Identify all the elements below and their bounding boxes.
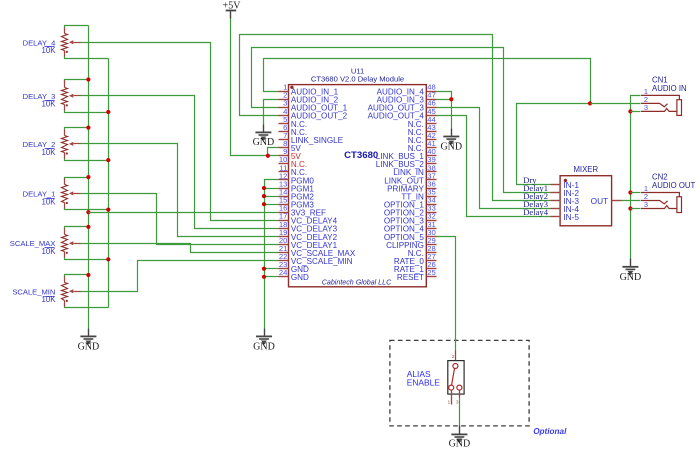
- ground symbol below IC: [264, 329, 266, 337]
- connector CN2 AUDIO OUT audio jack: [641, 173, 696, 213]
- pin 45 AUDIO_OUT_4: [427, 115, 437, 117]
- svg-text:3: 3: [644, 103, 648, 112]
- wire alias switch to ground: [459, 398, 461, 426]
- junction CN2 pin 3 ground: [628, 206, 632, 210]
- pin 3 AUDIO_OUT_1: [279, 107, 289, 109]
- wire SCALE_MIN bottom terminal to bus: [65, 305, 109, 308]
- wire DELAY_1 bottom terminal to bus: [65, 208, 109, 210]
- pin 40 LINK_BUS_1: [427, 155, 437, 157]
- junction bus X1: [86, 273, 90, 277]
- wire DELAY_4 wiper to VC_DELAY4 pin 17: [81, 43, 279, 221]
- junction bus X1: [86, 77, 90, 81]
- pin IN-1: [551, 184, 561, 186]
- jack pin 3 line with spring contact: [641, 206, 677, 209]
- svg-text:IN-5: IN-5: [563, 212, 579, 222]
- wire AUDIO_OUT_2 pin 4 to mixer IN-3 (top run): [240, 35, 551, 201]
- value overline mark DELAY_1: [45, 198, 55, 200]
- wire OPTION_5 pin 30 to alias switch: [437, 237, 456, 351]
- svg-text:24: 24: [279, 268, 288, 277]
- value overline mark DELAY_3: [45, 100, 55, 102]
- wire GND pin 23: [265, 268, 279, 270]
- junction PGM1: [262, 186, 266, 190]
- ground symbol mid (AUDIO_IN_2): [263, 125, 265, 133]
- resistor body DELAY_4: [64, 28, 66, 34]
- svg-text:GND: GND: [253, 341, 275, 352]
- pin IN-4: [551, 208, 561, 210]
- pin 9 5V: [279, 155, 289, 157]
- svg-text:OUT: OUT: [591, 196, 609, 206]
- junction bus X1: [86, 175, 90, 179]
- jack pin 2 line with tip switch: [641, 103, 668, 106]
- wire mixer OUT to CN2 pin 2: [622, 200, 641, 202]
- svg-text:GND: GND: [253, 137, 275, 148]
- wire SCALE_MIN top terminal to bus: [65, 275, 89, 278]
- mixer block MIXER: [551, 165, 622, 226]
- wire AUDIO_IN_4 pin 48 to ground: [437, 92, 452, 100]
- pin 36 PRIMARY: [427, 188, 437, 190]
- value overline mark DELAY_4: [45, 46, 55, 48]
- wire bus pot bottoms (ground rail): [108, 59, 110, 308]
- pin 35 TT_IN: [427, 196, 437, 198]
- pin OUT: [612, 200, 622, 202]
- pin 4 AUDIO_OUT_2: [279, 115, 289, 117]
- pin 7 LINK_SINGLE: [279, 139, 289, 141]
- svg-text:CT3680: CT3680: [344, 150, 378, 161]
- potentiometer DELAY_4 10K: [23, 26, 109, 59]
- resistor body SCALE_MIN: [64, 277, 66, 283]
- junction CN2 pin 1 ground: [628, 190, 632, 194]
- junction AUDIO_IN_3/4 ground: [449, 97, 453, 101]
- switch SW1 ALIAS ENABLE: [407, 351, 464, 405]
- svg-text:CT3680 V2.0 Delay Module: CT3680 V2.0 Delay Module: [311, 75, 404, 84]
- svg-text:Delay4: Delay4: [523, 207, 549, 217]
- wire PGM2 pin 14: [265, 196, 279, 198]
- connector CN1 AUDIO IN audio jack: [641, 75, 687, 115]
- potentiometer DELAY_3 10K: [23, 80, 109, 113]
- pin 42 N.C.: [427, 139, 437, 141]
- wire DELAY_4 bottom terminal to bus: [65, 57, 109, 59]
- pin 29 CLIPPING: [427, 244, 437, 246]
- junction CN1 sleeve: [628, 109, 632, 113]
- resistor body SCALE_MAX: [64, 229, 66, 235]
- pin IN-5: [551, 216, 561, 218]
- power symbol +5V: [223, 1, 242, 19]
- pin 33 OPTION_2: [427, 212, 437, 214]
- svg-text:10K: 10K: [42, 46, 57, 55]
- wire DELAY_1 top terminal to bus: [65, 178, 89, 180]
- wire DELAY_3 top terminal to bus: [65, 80, 89, 83]
- pin 48 AUDIO_IN_4: [427, 91, 437, 93]
- svg-text:10K: 10K: [42, 247, 57, 256]
- svg-text:AUDIO OUT: AUDIO OUT: [652, 181, 696, 190]
- pin 25 RESET: [427, 276, 437, 278]
- junction bus X2: [106, 257, 110, 261]
- svg-text:RESET: RESET: [397, 273, 424, 282]
- jack pin 2 line with tip switch: [641, 201, 668, 204]
- wire DELAY_3 bottom terminal to bus: [65, 110, 109, 113]
- wire DELAY_2 top terminal to bus: [65, 128, 89, 131]
- svg-text:10K: 10K: [42, 100, 57, 109]
- pin 27 RATE_0: [427, 260, 437, 262]
- pin 31 OPTION_4: [427, 228, 437, 230]
- potentiometer SCALE_MIN 10K: [12, 275, 108, 308]
- ground symbol below CN2: [630, 259, 632, 267]
- svg-text:AUDIO IN: AUDIO IN: [652, 84, 687, 93]
- wire CN1 pin 3: [631, 111, 641, 113]
- svg-text:25: 25: [427, 268, 436, 277]
- wire AUDIO_OUT_1 pin 3 to mixer IN-2 (top run): [252, 48, 551, 193]
- pin 14 PGM2: [279, 196, 289, 198]
- wire SCALE_MIN wiper to VC_SCALE_MIN pin 22: [81, 261, 279, 292]
- wire PGM3 pin 15: [265, 204, 279, 206]
- wire PGM0 pin 12 to PGM bus: [265, 180, 279, 329]
- svg-text:GND: GND: [291, 273, 309, 282]
- wire CN1 shield to ground rail: [631, 96, 641, 259]
- jack sleeve body: [677, 100, 682, 116]
- pin 28 N.C.: [427, 252, 437, 254]
- pin 38 LINK_IN: [427, 171, 437, 173]
- pin 43 N.C.: [427, 131, 437, 133]
- potentiometer SCALE_MAX 10K: [10, 227, 109, 260]
- svg-text:ENABLE: ENABLE: [407, 378, 440, 388]
- pin 18 VC_DELAY3: [279, 228, 289, 230]
- jack sleeve body: [677, 197, 682, 213]
- wire AUDIO_IN_1 pin 1 to CN1 (top run): [264, 59, 591, 104]
- junction 5V rail: [266, 154, 270, 158]
- wire SCALE_MAX wiper to VC_SCALE_MAX pin 21: [81, 244, 279, 253]
- wire DELAY_4 top terminal to bus: [65, 26, 89, 29]
- pin 37 LINK_OUT: [427, 179, 437, 181]
- pin IN-2: [551, 192, 561, 194]
- wire AUDIO_IN_3 pin 47 to ground: [437, 100, 452, 129]
- pin 19 VC_DELAY2: [279, 236, 289, 238]
- wire +5V rail down to pin 9 row: [231, 19, 279, 156]
- ground symbol right of IC: [451, 129, 453, 137]
- pin IN-3: [551, 200, 561, 202]
- svg-text:GND: GND: [440, 141, 462, 152]
- wire AUDIO_OUT_4 pin 45 to mixer IN-5: [437, 116, 551, 217]
- wire DELAY_2 bottom terminal to bus: [65, 158, 109, 161]
- value overline mark SCALE_MAX: [45, 247, 55, 249]
- ground symbol lower left: [88, 329, 90, 337]
- IC U11 left pins 1-24: [279, 83, 356, 283]
- pin 22 VC_SCALE_MIN: [279, 260, 289, 262]
- svg-text:GND: GND: [78, 341, 100, 352]
- pin 2 AUDIO_IN_2: [279, 99, 289, 101]
- resistor body DELAY_2: [64, 130, 66, 136]
- jack pin 1 line: [641, 193, 679, 213]
- ground symbol below alias switch: [459, 426, 461, 435]
- wire GND pin 24: [265, 276, 279, 278]
- pin 11 N.C.: [279, 171, 289, 173]
- pin 17 VC_DELAY4: [279, 220, 289, 222]
- value overline mark SCALE_MIN: [45, 296, 55, 298]
- resistor body DELAY_1: [64, 179, 66, 185]
- wiper arrow SCALE_MIN: [69, 289, 73, 293]
- wire SCALE_MAX top terminal to bus: [65, 227, 89, 230]
- wire pin 8 5V to rail: [268, 148, 279, 156]
- pin 34 OPTION_1: [427, 204, 437, 206]
- wiper arrow DELAY_3: [69, 94, 73, 98]
- svg-text:Optional: Optional: [533, 427, 567, 436]
- wiper arrow DELAY_1: [69, 191, 73, 195]
- junction GND pin 24: [262, 275, 266, 279]
- wire CN2 pin 1: [631, 192, 641, 194]
- junction PGM2: [262, 194, 266, 198]
- jack pin 1 line: [641, 95, 679, 115]
- junction bus X1: [86, 126, 90, 130]
- wiper arrow DELAY_2: [69, 142, 73, 146]
- pin 10 N.C.: [279, 163, 289, 165]
- wire AUDIO_OUT_3 pin 46 to mixer IN-4: [437, 108, 551, 209]
- pin 39 LINK_BUS_2: [427, 163, 437, 165]
- svg-text:GND: GND: [620, 272, 642, 283]
- pin 1 AUDIO_IN_1: [279, 91, 289, 93]
- pin 8 5V: [279, 147, 289, 149]
- wiper arrow DELAY_4: [69, 40, 73, 44]
- value overline mark DELAY_2: [45, 148, 55, 150]
- wire DELAY_1 wiper to VC_DELAY1 pin 20: [81, 194, 279, 245]
- pin 47 AUDIO_IN_3: [427, 99, 437, 101]
- svg-text:3: 3: [644, 200, 648, 209]
- junction bus X1: [86, 225, 90, 229]
- wire DELAY_2 wiper to VC_DELAY2 pin 19: [81, 144, 279, 237]
- resistor body DELAY_3: [64, 81, 66, 88]
- wire DELAY_3 wiper to VC_DELAY3 pin 18: [81, 96, 279, 229]
- pin 46 AUDIO_OUT_3: [427, 107, 437, 109]
- svg-text:Cabintech Global LLC: Cabintech Global LLC: [322, 279, 392, 287]
- IC U11 CT3680 V2.0 Delay Module: [289, 67, 427, 287]
- svg-text:GND: GND: [449, 439, 471, 450]
- junction GND pin 23: [262, 267, 266, 271]
- wire SCALE_MAX bottom terminal to bus: [65, 257, 109, 260]
- pin 5 N.C.: [279, 123, 289, 125]
- pin 16 3V3_REF: [279, 212, 289, 214]
- pin 41 N.C.: [427, 147, 437, 149]
- wire AUDIO_IN_2 pin 2 to ground: [264, 100, 279, 125]
- pin 6 N.C.: [279, 131, 289, 133]
- wiper arrow SCALE_MAX: [69, 241, 73, 245]
- dashed optional region box: [390, 340, 529, 426]
- pin 23 GND: [279, 268, 289, 270]
- junction PGM3: [262, 202, 266, 206]
- svg-text:MIXER: MIXER: [573, 165, 598, 174]
- potentiometer DELAY_2 10K: [23, 128, 109, 161]
- pin 44 N.C.: [427, 123, 437, 125]
- wire PGM1 pin 13: [265, 188, 279, 190]
- jack pin 3 line with spring contact: [641, 109, 677, 112]
- junction bus X2: [106, 110, 110, 114]
- pin 30 OPTION_5: [427, 236, 437, 238]
- pin 20 VC_DELAY1: [279, 244, 289, 246]
- wire CN1 pin 2: [591, 103, 641, 105]
- pin 15 PGM3: [279, 204, 289, 206]
- pin 32 OPTION_3: [427, 220, 437, 222]
- pin 13 PGM1: [279, 188, 289, 190]
- pin 26 RATE_1: [427, 268, 437, 270]
- junction bus X1 3V3_REF tap: [86, 210, 90, 214]
- junction CN1 tip node: [588, 101, 592, 105]
- pin 24 GND: [279, 276, 289, 278]
- wire 3V3_REF pin 16 to pot top bus: [89, 212, 279, 214]
- potentiometer DELAY_1 10K: [23, 178, 109, 210]
- wire dry signal from CN1 to mixer IN-1: [517, 104, 591, 185]
- IC U11 right pins 25-48: [368, 83, 437, 283]
- junction bus X2: [106, 208, 110, 212]
- pin 12 PGM0: [279, 179, 289, 181]
- pin 21 VC_SCALE_MAX: [279, 252, 289, 254]
- wire CN2 pin 3: [631, 208, 641, 210]
- wire bus pot tops (3V3 reference rail): [88, 26, 90, 329]
- svg-text:10K: 10K: [42, 148, 57, 157]
- junction bus X2: [106, 158, 110, 162]
